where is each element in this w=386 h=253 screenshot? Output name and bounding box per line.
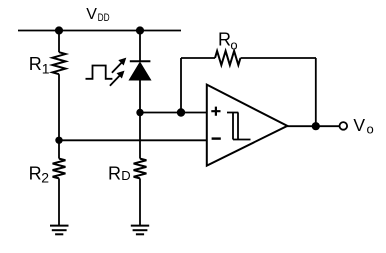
svg-text:R: R: [29, 163, 42, 183]
svg-text:1: 1: [42, 60, 50, 76]
svg-text:2: 2: [41, 169, 49, 185]
node VDD label: [86, 6, 109, 24]
svg-text:D: D: [121, 168, 130, 183]
svg-text:o: o: [230, 37, 237, 52]
wire feedback right vertical: [315, 58, 317, 126]
terminal Vo open circle: [340, 122, 348, 130]
wire R2 to ground: [58, 178, 60, 225]
light arrow upper: [112, 58, 126, 73]
wire VDD rail: [18, 30, 181, 32]
wire RD to ground: [139, 178, 141, 225]
resistor R1: [53, 52, 66, 74]
node Vo label: [353, 115, 373, 136]
wire left branch top (VDD to R1): [58, 31, 60, 53]
node junction dot photodiode/RD: [136, 109, 143, 116]
node junction dot R1/R2: [55, 137, 62, 144]
wire output: [287, 125, 340, 127]
resistor R2: [53, 159, 66, 179]
ground (left): [50, 226, 69, 235]
node junction dot feedback/+: [177, 108, 185, 116]
wire feedback top left segment: [181, 57, 215, 59]
wire R1 to R2: [58, 74, 60, 158]
svg-text:DD: DD: [98, 12, 110, 24]
node junction dot VDD/R1: [55, 26, 63, 34]
resistor Ro: [215, 51, 240, 65]
wire middle branch top (VDD to photodiode): [139, 31, 141, 62]
node junction dot VDD/photodiode: [136, 26, 144, 34]
svg-text:V: V: [353, 115, 365, 135]
wire feedback top right segment: [241, 57, 317, 59]
wire feedback left vertical: [180, 58, 182, 113]
light pulse symbol: [86, 66, 113, 79]
ground (middle): [131, 226, 149, 235]
wire photodiode to RD / + node: [139, 80, 141, 159]
photodiode D1: [130, 61, 151, 80]
svg-text:R: R: [218, 30, 231, 50]
op-amp U1: [207, 85, 287, 166]
resistor RD: [134, 159, 147, 179]
wire non-inverting input (+): [140, 112, 207, 114]
svg-text:R: R: [108, 163, 121, 183]
node output junction dot: [312, 122, 320, 130]
svg-text:V: V: [86, 6, 97, 23]
svg-text:R: R: [29, 54, 42, 74]
wire inverting input (-): [59, 139, 207, 141]
svg-text:o: o: [367, 121, 374, 136]
light arrow lower: [110, 71, 125, 86]
